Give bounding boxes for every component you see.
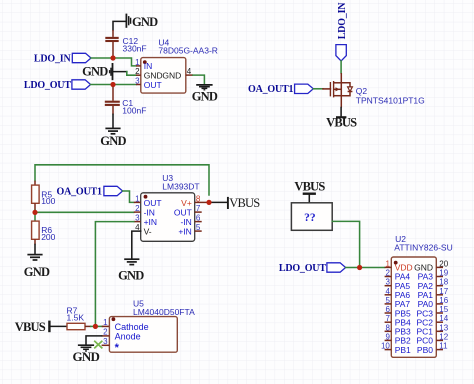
svg-text:15: 15: [439, 305, 448, 314]
svg-text:2: 2: [135, 204, 140, 213]
svg-text:1: 1: [135, 194, 140, 203]
junction (LDO_IN / C12 node): [110, 55, 115, 60]
svg-text:18: 18: [439, 278, 448, 287]
svg-text:V+: V+: [181, 198, 192, 208]
port LDO_OUT (to U2): [279, 263, 346, 274]
svg-text:20: 20: [439, 259, 448, 268]
power port GND (top, right-pointing bars): [126, 14, 158, 29]
svg-text:5: 5: [196, 223, 201, 232]
svg-text:100nF: 100nF: [122, 106, 146, 116]
power port VBUS (left of R7): [15, 320, 67, 334]
capacitor C12: [105, 30, 118, 58]
shunt reference U5 LM4040D50FTA: [102, 317, 178, 355]
wire LDO_IN net: [91, 58, 136, 66]
svg-text:330nF: 330nF: [123, 43, 147, 53]
svg-text:16: 16: [439, 296, 448, 305]
power port GND (at U4 pin 2): [82, 63, 112, 80]
svg-text:GND: GND: [132, 15, 158, 29]
regulator U4 designator: [158, 37, 218, 55]
svg-text:TPNTS4101PT1G: TPNTS4101PT1G: [356, 95, 425, 105]
svg-text:*: *: [115, 342, 120, 354]
MCU U2 ATTINY826-SU: [381, 257, 449, 357]
junction (R7 node): [93, 324, 98, 329]
svg-text:8: 8: [196, 194, 201, 203]
svg-text:13: 13: [439, 323, 448, 332]
svg-text:7: 7: [196, 204, 201, 213]
svg-text:3: 3: [135, 214, 140, 223]
R7 designator and value: [67, 306, 85, 323]
wire: [113, 21, 126, 30]
svg-text:10: 10: [381, 342, 390, 351]
svg-text:1: 1: [103, 318, 108, 327]
wire: [34, 245, 36, 255]
wire: [340, 61, 342, 73]
C1 designator and value: [122, 98, 146, 115]
svg-text:GND: GND: [162, 70, 181, 80]
svg-text:1: 1: [135, 58, 140, 67]
svg-text:19: 19: [439, 269, 448, 278]
wire GND to pin 2: [113, 71, 127, 73]
junction (LDO_OUT / U2 VDD node): [357, 265, 362, 270]
svg-text:100: 100: [41, 196, 55, 206]
wire: [346, 267, 385, 269]
ground GND (U3 pin 4): [118, 259, 144, 283]
svg-text:GND: GND: [24, 265, 50, 279]
R5 designator and value: [41, 189, 55, 206]
U3 designator: [162, 173, 199, 191]
svg-text:LDO_OUT: LDO_OUT: [279, 263, 326, 274]
junction (R5/R6 node): [32, 210, 37, 215]
port OA_OUT1 (to Q2 gate): [248, 84, 313, 95]
svg-text:LM393DT: LM393DT: [162, 181, 199, 191]
wire node to U5 pin 1: [91, 325, 103, 327]
svg-text:78D05G-AA3-R: 78D05G-AA3-R: [158, 46, 218, 56]
wire LDO_OUT net: [91, 84, 136, 86]
port OA_OUT1 (to U3 pin 1): [57, 186, 123, 197]
svg-text:PB1: PB1: [395, 345, 411, 355]
svg-text:3: 3: [103, 337, 108, 346]
svg-text:7: 7: [385, 314, 390, 323]
svg-text:14: 14: [439, 314, 448, 323]
svg-text:LDO_IN: LDO_IN: [34, 53, 72, 64]
svg-text:VBUS: VBUS: [15, 320, 46, 334]
wire: [112, 114, 114, 128]
power port VBUS (below Q2): [326, 108, 357, 130]
svg-text:LM4040D50FTA: LM4040D50FTA: [133, 307, 195, 317]
svg-text:-IN: -IN: [180, 217, 191, 227]
port LDO_IN (vertical): [336, 2, 348, 61]
svg-text:9: 9: [385, 332, 390, 341]
ground GND (below C1): [100, 128, 126, 148]
wire U5 pin 2 to ground: [86, 336, 102, 345]
svg-text:8: 8: [385, 323, 390, 332]
svg-text:4: 4: [187, 67, 192, 76]
resistor R7: [67, 323, 91, 329]
unknown component ?? box: [291, 203, 332, 231]
svg-text:GND: GND: [118, 269, 144, 283]
svg-text:11: 11: [439, 342, 448, 351]
svg-text:2: 2: [103, 328, 108, 337]
svg-text:OUT: OUT: [144, 198, 162, 208]
svg-text:GND: GND: [82, 65, 108, 79]
svg-text:Cathode: Cathode: [115, 322, 149, 332]
svg-text:1.5K: 1.5K: [67, 313, 85, 323]
svg-text:PB0: PB0: [417, 345, 433, 355]
svg-text:+IN: +IN: [178, 226, 191, 236]
svg-text:VBUS: VBUS: [229, 196, 260, 210]
svg-text:OA_OUT1: OA_OUT1: [57, 186, 102, 197]
transistor Q2 TPNTS4101PT1G: [330, 73, 352, 108]
R6 designator and value: [41, 225, 55, 242]
svg-text:VBUS: VBUS: [294, 180, 325, 194]
U2 designator: [394, 234, 452, 253]
junction (U3 pin 8 / VBUS): [206, 200, 211, 205]
svg-text:6: 6: [385, 305, 390, 314]
svg-text:3: 3: [135, 77, 140, 86]
power port VBUS (right of U3): [209, 196, 260, 210]
svg-text:1: 1: [385, 259, 390, 268]
resistor R6: [32, 221, 39, 244]
svg-text:3: 3: [385, 278, 390, 287]
wire U4 pin 4 to ground: [193, 75, 204, 84]
ground GND (at U4 pin 4): [192, 85, 218, 104]
wire U3 pin 3 to R7 node: [95, 222, 133, 327]
svg-text:GND: GND: [73, 349, 100, 364]
svg-text:-IN: -IN: [144, 207, 155, 217]
svg-text:V-: V-: [144, 226, 152, 236]
svg-text:4: 4: [385, 287, 390, 296]
svg-text:200: 200: [41, 232, 55, 242]
svg-text:GND: GND: [100, 134, 126, 148]
C12 designator and value: [123, 36, 147, 53]
svg-text:Anode: Anode: [115, 332, 141, 342]
wire U3 pin 4 to ground: [132, 231, 141, 259]
svg-text:GND: GND: [192, 90, 218, 104]
U5 designator: [133, 299, 195, 318]
svg-text:6: 6: [196, 214, 201, 223]
wire ?? box to U2 pin 1: [332, 221, 359, 267]
svg-text:17: 17: [439, 287, 448, 296]
no-ERC marker (U5 pin 3): [94, 341, 102, 349]
svg-text:OUT: OUT: [174, 207, 192, 217]
svg-text:LDO_OUT: LDO_OUT: [24, 80, 71, 91]
svg-text:??: ??: [304, 212, 316, 224]
Q2 designator: [356, 86, 425, 105]
regulator U4 78D05G-AA3-R: [135, 58, 193, 94]
resistor R5: [32, 181, 39, 211]
svg-text:+IN: +IN: [144, 217, 157, 227]
svg-text:LDO_IN: LDO_IN: [337, 2, 348, 40]
wire VBUS rail to R5 and U3 pin 8: [35, 165, 209, 195]
ground GND (U5 pin 2): [73, 345, 100, 364]
port LDO_OUT: [24, 80, 91, 91]
svg-text:2: 2: [135, 67, 140, 76]
svg-text:VBUS: VBUS: [326, 116, 357, 130]
capacitor C1: [105, 87, 120, 115]
svg-text:ATTINY826-SU: ATTINY826-SU: [394, 242, 452, 252]
svg-text:OUT: OUT: [144, 80, 162, 90]
wire node to U3 pin 2: [35, 210, 134, 221]
svg-text:OA_OUT1: OA_OUT1: [248, 84, 293, 95]
junction (LDO_OUT / C1 node): [110, 82, 115, 87]
svg-text:5: 5: [385, 296, 390, 305]
wire: [313, 88, 323, 90]
wire to pin 1: [123, 191, 134, 202]
port LDO_IN: [34, 53, 91, 64]
comparator U3 LM393DT: [134, 193, 209, 242]
svg-text:12: 12: [439, 332, 448, 341]
power port VBUS (above ?? box): [294, 180, 325, 203]
svg-text:2: 2: [385, 269, 390, 278]
ground GND (below R6): [24, 255, 50, 280]
